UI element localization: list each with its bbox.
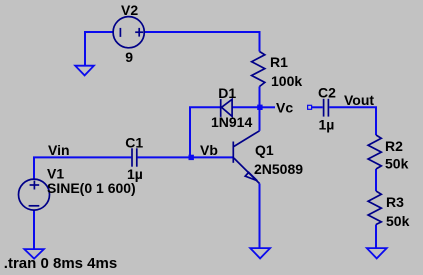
svg-text:Vin: Vin [48, 142, 70, 158]
svg-text:1N914: 1N914 [211, 114, 252, 130]
svg-text:V2: V2 [121, 2, 138, 18]
svg-text:R2: R2 [385, 138, 403, 154]
svg-text:C2: C2 [318, 85, 336, 101]
svg-text:.tran 0 8ms 4ms: .tran 0 8ms 4ms [4, 255, 117, 272]
svg-text:2N5089: 2N5089 [254, 161, 303, 177]
svg-text:R3: R3 [386, 194, 404, 210]
svg-text:C1: C1 [125, 134, 143, 150]
svg-text:R1: R1 [270, 54, 288, 70]
svg-text:Vout: Vout [344, 92, 374, 108]
svg-text:100k: 100k [271, 73, 302, 89]
svg-text:50k: 50k [386, 213, 410, 229]
svg-text:SINE(0 1 600): SINE(0 1 600) [47, 180, 136, 196]
svg-text:Q1: Q1 [255, 142, 274, 158]
svg-text:1µ: 1µ [127, 166, 143, 182]
svg-text:D1: D1 [218, 85, 236, 101]
svg-text:Vc: Vc [276, 99, 293, 115]
svg-text:Vb: Vb [200, 142, 218, 158]
svg-text:50k: 50k [385, 155, 409, 171]
svg-text:9: 9 [125, 49, 133, 65]
svg-text:1µ: 1µ [319, 117, 335, 133]
